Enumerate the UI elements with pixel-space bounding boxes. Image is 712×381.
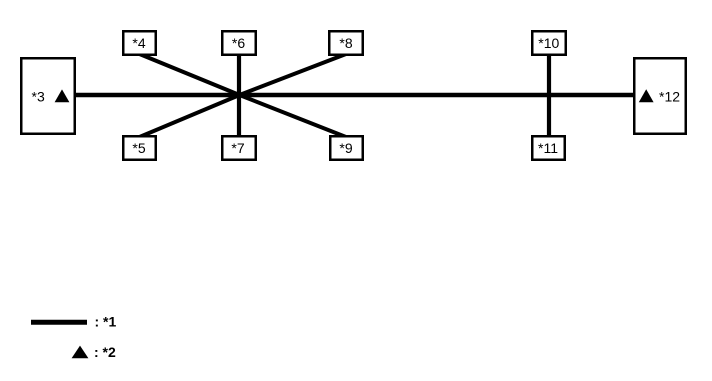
svg-text:*12: *12 (659, 89, 680, 105)
wire from node *4 to bus junction (140, 54, 240, 95)
node box *4 (123, 31, 156, 55)
svg-text:*10: *10 (538, 35, 559, 51)
wire from node *6 to node *7 through bus junction (237, 54, 241, 137)
node box *12 (right terminal device) (634, 58, 686, 134)
node box *5 (123, 136, 156, 160)
node box *6 (222, 31, 256, 55)
node box *3 (left terminal device) (21, 58, 75, 134)
triangle *2 inside node *3 (55, 89, 70, 102)
svg-text:*5: *5 (132, 140, 145, 156)
wire from node *8 to bus junction (240, 54, 347, 95)
node box *8 (329, 31, 363, 55)
svg-text:*9: *9 (339, 140, 352, 156)
svg-text:*7: *7 (231, 140, 244, 156)
legend line sample : *1 (31, 314, 117, 330)
node box *9 (330, 136, 363, 160)
svg-text:*6: *6 (232, 35, 245, 51)
svg-text:*3: *3 (32, 89, 45, 105)
svg-text:*11: *11 (538, 140, 558, 156)
node box *10 (532, 31, 566, 55)
wire from node *9 to bus junction (240, 95, 347, 137)
wire from node *5 to bus junction (140, 95, 240, 137)
bus line *1 (main horizontal bus) (76, 93, 633, 98)
node box *11 (532, 136, 565, 160)
legend triangle sample : *2 (72, 344, 116, 360)
svg-text:*4: *4 (132, 35, 145, 51)
triangle *2 inside node *12 (639, 89, 654, 102)
svg-text:: *1: : *1 (95, 314, 117, 330)
node box *7 (222, 136, 256, 160)
wire from node *10 to node *11 through bus (547, 54, 551, 137)
svg-text:*8: *8 (339, 35, 352, 51)
svg-text:: *2: : *2 (94, 344, 116, 360)
